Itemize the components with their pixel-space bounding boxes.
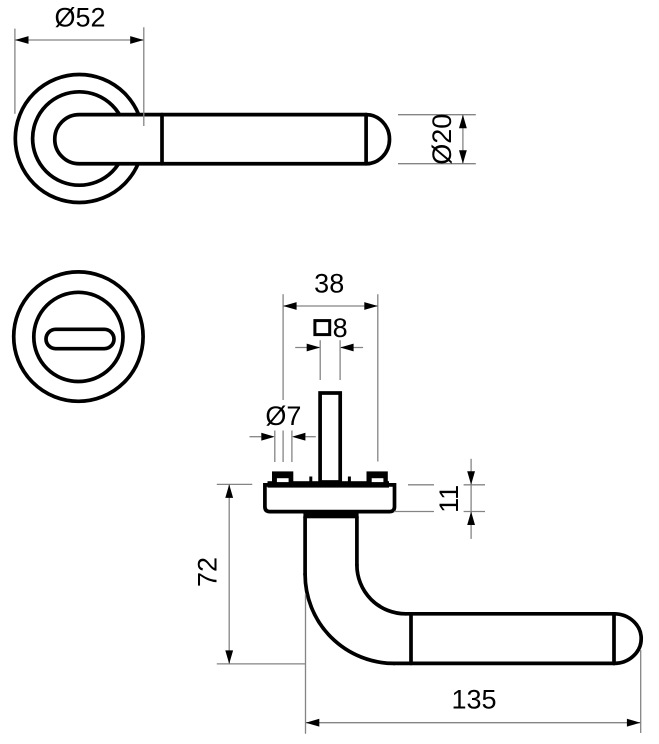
dimension Ø20: extension line bottom [398, 163, 476, 165]
dimension Ø7: right tail line [306, 436, 316, 438]
dimension Ø52: extension line right [143, 27, 145, 126]
grip bottom edge [394, 662, 614, 666]
lever joint line 1 (neck/grip) [160, 115, 164, 164]
dimension 11: top tick right segment [464, 484, 485, 486]
dimension Ø20: dimension line [462, 115, 464, 164]
dimension 8: extension line left [319, 340, 321, 380]
handle outer bend curve [305, 574, 394, 663]
dimension 72: top tick [217, 483, 253, 485]
dimension 11: bottom arrow (pointing up) [467, 512, 475, 526]
grip end cap arc [614, 614, 641, 664]
svg-text:Ø20: Ø20 [427, 114, 457, 165]
dimension 38: extension line left (upper part) [282, 294, 284, 400]
dimension Ø20: top arrow [459, 115, 467, 129]
dimension 8: left tail line [295, 347, 319, 349]
dimension 11: top arrow (pointing down) [467, 471, 475, 485]
handle neck left edge [303, 517, 307, 574]
dimension 135: extension line left [305, 594, 307, 734]
screw lug left (black body) [272, 471, 293, 482]
svg-text:Ø52: Ø52 [54, 3, 105, 33]
svg-text:38: 38 [314, 269, 344, 299]
lever joint line 2 (grip/cap) [364, 115, 368, 164]
handle inner bend curve [357, 565, 406, 614]
dimension 11: dimension line [470, 459, 472, 539]
dimension Ø7: centre line (lower part of 38 left extension) [282, 431, 284, 463]
rose outer circle [15, 75, 143, 203]
handle neck top (black bar under rose) [303, 513, 358, 519]
dimension 72: bottom arrow (pointing down) [225, 650, 233, 664]
dimension 8: right arrow (pointing left) [340, 344, 354, 352]
dimension 8: left arrow (pointing right) [307, 344, 321, 352]
plate tick left of spindle [309, 477, 312, 483]
dimension Ø7: extension line right [291, 431, 293, 463]
escutcheon outer circle [14, 272, 143, 401]
grip top edge [406, 612, 614, 616]
plate tick right of spindle [348, 477, 351, 483]
dimension 135: left arrow [306, 719, 320, 727]
dimension Ø7: right arrow (pointing left) [292, 433, 306, 441]
handle neck right edge [355, 517, 359, 565]
dimension 72: bottom tick [217, 663, 305, 665]
dimension 38: extension line right [377, 294, 379, 461]
svg-text:72: 72 [192, 557, 222, 587]
grip cap joint line [612, 614, 616, 664]
svg-text:8: 8 [333, 313, 348, 343]
screw lug left hole (white window) [277, 478, 289, 482]
dimension Ø7: extension line left [274, 431, 276, 463]
dimension Ø52: right arrow [130, 36, 144, 44]
rose inner circle [33, 92, 126, 185]
dimension 8: square symbol [315, 321, 330, 335]
dimension Ø52: extension line left [14, 29, 16, 114]
escutcheon inner circle [34, 292, 123, 381]
dimension 11: top tick left segment [408, 484, 434, 486]
dimension Ø20: extension line top [398, 114, 476, 116]
svg-text:135: 135 [451, 684, 496, 714]
dimension 38: right arrow [364, 302, 378, 310]
svg-text:11: 11 [434, 485, 464, 513]
svg-text:Ø7: Ø7 [265, 401, 301, 431]
dimension 135: dimension line [306, 722, 641, 724]
dimension 8: right tail line [341, 347, 363, 349]
dimension 38: dimension line [283, 305, 378, 307]
dimension 11: bottom tick right segment [464, 511, 485, 513]
dimension Ø20: bottom arrow [459, 150, 467, 164]
dimension Ø52: dimension line [15, 39, 144, 41]
screw lug right (black body) [367, 471, 388, 482]
screw lug right hole (white window) [372, 478, 384, 482]
grip joint line (neck/grip) [409, 614, 413, 664]
dimension 8: extension line right [339, 340, 341, 380]
dimension Ø7: left tail line [250, 436, 262, 438]
escutcheon thumbturn slot [46, 329, 114, 348]
dimension Ø7: left arrow (pointing right) [261, 433, 275, 441]
dimension 38: left arrow [283, 302, 297, 310]
spindle (square bar, side view) [320, 393, 340, 482]
dimension 135: extension line right [640, 650, 642, 733]
rose cover (rounded rectangle) [265, 485, 395, 512]
dimension 11: bottom tick left segment [394, 511, 434, 513]
dimension 72: dimension line [228, 484, 230, 664]
dimension 135: right arrow [627, 719, 641, 727]
lever body (stadium outline, white fill over circles) [55, 115, 390, 164]
dimension Ø52: left arrow [15, 36, 29, 44]
sub-rose plate (black bar) [268, 481, 390, 487]
dimension 72: top arrow (pointing up) [225, 484, 233, 498]
